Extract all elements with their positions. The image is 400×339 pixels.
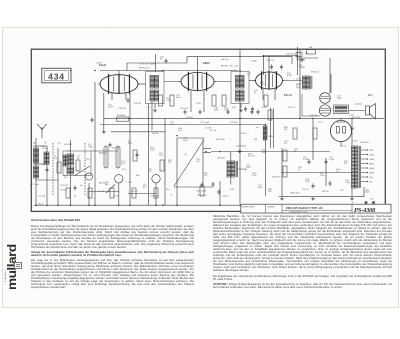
wire mains return	[363, 187, 365, 197]
wire volume drop	[176, 138, 178, 205]
junction J9	[299, 118, 301, 120]
capacitor C60	[329, 181, 332, 187]
svg-text:EBF2: EBF2	[203, 61, 210, 65]
resistor R7	[133, 150, 137, 161]
wire AF line	[177, 137, 204, 139]
svg-text:GO-6215: GO-6215	[112, 148, 121, 150]
capacitor C40	[184, 109, 187, 115]
junction bus b	[70, 204, 72, 206]
svg-text:CHASSIS: CHASSIS	[267, 206, 275, 209]
svg-text:R2 0.3M: R2 0.3M	[60, 185, 68, 187]
capacitor C55b	[212, 182, 215, 188]
resistor R8	[159, 95, 163, 106]
svg-text:R33: R33	[230, 189, 235, 191]
resistor R20	[283, 150, 287, 161]
oscillator coil L5	[67, 154, 74, 165]
wire ground bus left	[34, 204, 240, 206]
mains transformer T3 winding	[352, 146, 361, 188]
wire HT bus	[104, 117, 384, 119]
svg-text:C5 100: C5 100	[60, 190, 67, 192]
svg-text:(1W–2W): (1W–2W)	[352, 117, 360, 119]
wire oscillator link	[91, 150, 118, 152]
resistor R19	[313, 128, 317, 139]
capacitor C41	[199, 109, 202, 115]
resistor R27	[88, 188, 92, 198]
svg-text:C30 C31: C30 C31	[266, 60, 275, 62]
svg-text:(R, S1): (R, S1)	[210, 130, 217, 132]
svg-text:50: 50	[77, 158, 80, 160]
svg-text:(2s): (2s)	[369, 182, 373, 184]
wire smoothing drop	[312, 118, 314, 160]
junction bus l	[118, 204, 120, 206]
wire S1 earth lead	[154, 104, 156, 109]
svg-text:TC: TC	[170, 195, 173, 197]
resistor R31	[200, 186, 204, 196]
svg-text:KORREKTUREN: KORREKTUREN	[242, 207, 256, 209]
wire centre rail lower	[239, 99, 241, 204]
wire AF return	[174, 186, 213, 188]
svg-text:(1Wa): (1Wa)	[369, 155, 374, 157]
resistor R18	[293, 128, 297, 139]
wire rectifier anode	[340, 118, 342, 120]
wire screen bus	[100, 124, 266, 126]
wire stage frame b	[187, 56, 292, 58]
svg-text:(10b): (10b)	[297, 84, 302, 86]
svg-text:60μF: 60μF	[337, 98, 342, 100]
wire stage frame a drop	[126, 63, 128, 71]
svg-text:AF 452: AF 452	[222, 58, 229, 61]
svg-text:50 125: 50 125	[98, 191, 105, 193]
wire V3 anode feed	[268, 56, 270, 72]
loudspeaker BA1	[366, 104, 376, 120]
wire V2 anode to S2	[214, 81, 231, 83]
wire wave switch link	[36, 179, 58, 181]
svg-text:L13a: L13a	[240, 85, 245, 87]
svg-text:100: 100	[196, 161, 200, 163]
svg-text:44 V 474 – A 184: 44 V 474 – A 184	[140, 63, 156, 66]
ground G12	[280, 197, 284, 200]
wire S1 top feed	[155, 54, 157, 72]
svg-text:50: 50	[160, 59, 163, 61]
svg-text:DR50: DR50	[268, 136, 273, 138]
junction bus d	[129, 204, 131, 206]
output transformer T2 primary	[303, 76, 312, 89]
svg-text:B6: B6	[351, 127, 355, 131]
wire switch gang a (dashed)	[52, 143, 54, 196]
wire cathode link b	[128, 193, 156, 195]
svg-text:C21 0.1μF: C21 0.1μF	[200, 122, 210, 124]
wire cathode link a	[89, 191, 119, 193]
svg-text:C33 3110: C33 3110	[286, 54, 295, 56]
svg-text:R34 0.5M: R34 0.5M	[216, 139, 225, 141]
svg-text:10 V: 10 V	[178, 130, 183, 132]
svg-text:(6): (6)	[33, 143, 36, 145]
wire V1 grid drop	[70, 140, 72, 205]
svg-text:1200: 1200	[320, 175, 325, 177]
wire V1 anode drop	[129, 93, 131, 205]
wire S2 to V3 grid	[249, 80, 256, 82]
svg-text:200cm: 200cm	[42, 148, 48, 150]
resistor R9	[170, 95, 174, 106]
svg-text:C70 4700: C70 4700	[296, 60, 306, 62]
svg-text:2 FALZSEITEN 4/17 B.N.: 2 FALZSEITEN 4/17 B.N.	[289, 211, 308, 214]
svg-text:R45 50: R45 50	[322, 191, 329, 193]
svg-text:AF-3017: AF-3017	[218, 157, 227, 160]
IF transformer S2 primary L12	[236, 76, 245, 89]
wire wave rail	[57, 148, 59, 205]
svg-text:(4): (4)	[90, 147, 93, 149]
svg-text:2C/48: 2C/48	[96, 63, 102, 65]
wire output HT loop	[330, 74, 332, 93]
svg-text:BA1: BA1	[368, 94, 373, 97]
svg-text:L5a: L5a	[86, 159, 90, 161]
smoothing can C58 (bottom)	[319, 105, 330, 116]
capacitor C44	[257, 109, 260, 115]
mains voltage selector Wz	[307, 50, 316, 55]
valve V3 ECL11 (output)	[254, 71, 285, 89]
wire centre rail upper	[239, 50, 241, 76]
svg-text:C64 0.1: C64 0.1	[302, 189, 310, 191]
aerial coil L1	[34, 148, 39, 163]
svg-text:C49 0.1: C49 0.1	[222, 196, 230, 198]
mains transformer T3 taps	[361, 149, 368, 182]
junction J15	[219, 151, 221, 153]
svg-text:R19 2M: R19 2M	[310, 115, 317, 117]
wire aerial coil link b	[34, 163, 48, 165]
junction J3	[129, 118, 131, 120]
capacitor C58a	[308, 159, 311, 165]
wire pick-up bus	[211, 151, 330, 153]
aerial	[37, 124, 47, 138]
capacitor C9	[109, 142, 112, 148]
svg-text:GR50 Ukg: GR50 Ukg	[290, 193, 299, 195]
resistor R28	[110, 188, 114, 198]
svg-text:220V: 220V	[369, 150, 374, 152]
wire V1 pin 5	[125, 93, 127, 100]
svg-text:AS-104: AS-104	[43, 163, 51, 166]
wire DR lead a	[270, 108, 272, 148]
resistor R12	[212, 95, 216, 106]
wire S1 to V2 grid	[164, 81, 181, 83]
svg-text:(R, D1): (R, D1)	[248, 156, 255, 158]
wire S1 secondary return	[148, 104, 150, 206]
resistor R15	[268, 110, 272, 120]
junction bus f	[176, 204, 178, 206]
junction J4	[162, 70, 164, 72]
wire pick-up coil bottom	[230, 177, 232, 185]
svg-text:a b: a b	[256, 127, 260, 129]
svg-text:AF-3012: AF-3012	[99, 182, 108, 185]
svg-text:(L2): (L2)	[54, 158, 58, 160]
svg-text:PHILIPS RADIO TYPE 434: PHILIPS RADIO TYPE 434	[286, 206, 323, 210]
svg-text:0.1μF: 0.1μF	[352, 141, 358, 143]
resistor R16	[264, 95, 268, 106]
svg-text:U-8: U-8	[370, 199, 374, 201]
junction J13	[265, 124, 267, 126]
IF transformer S1 screen box	[146, 72, 165, 104]
IF transformer S1 secondary L11	[150, 90, 159, 101]
wire rectifier cathode	[340, 142, 342, 147]
svg-text:R14 50: R14 50	[186, 117, 193, 119]
svg-text:(2e): (2e)	[340, 190, 344, 192]
wire heater line	[281, 172, 352, 174]
svg-text:(W): (W)	[254, 139, 258, 141]
junction bus a	[46, 204, 48, 206]
svg-text:5000: 5000	[365, 192, 370, 194]
junction bus k	[88, 204, 90, 206]
padder trimmer P2	[116, 146, 120, 168]
svg-text:C21a: C21a	[196, 103, 202, 105]
ground G11	[102, 130, 106, 133]
svg-text:(6a): (6a)	[166, 189, 170, 191]
svg-text:o. T. Land: o. T. Land	[30, 184, 39, 186]
IF transformer S2 secondary L13	[236, 90, 245, 101]
junction J12	[176, 135, 178, 137]
wire stage frame a	[127, 62, 187, 64]
title block table	[241, 204, 391, 213]
capacitor C61	[312, 183, 315, 189]
capacitor C4	[127, 98, 130, 104]
svg-text:2500: 2500	[246, 167, 251, 169]
wire V2 pin 3	[190, 91, 192, 113]
svg-text:0.1μF: 0.1μF	[349, 115, 355, 117]
resistor R2	[57, 162, 61, 173]
junction J1	[70, 70, 72, 72]
svg-text:110 P: 110 P	[108, 107, 114, 109]
svg-text:4700 4700: 4700 4700	[197, 195, 207, 197]
wire C59 drop	[325, 158, 327, 186]
smoothing choke DR50	[263, 126, 267, 140]
svg-text:25: 25	[74, 196, 77, 198]
svg-text:0.3M: 0.3M	[224, 110, 229, 112]
svg-text:HF 452 – 80 + 117: HF 452 – 80 + 117	[221, 65, 239, 67]
aerial coil L3	[44, 152, 49, 164]
svg-text:C54 625μF: C54 625μF	[236, 146, 247, 148]
wire switch selector	[202, 138, 204, 185]
svg-text:30: 30	[254, 92, 257, 94]
svg-text:5000: 5000	[258, 187, 263, 189]
svg-text:L8a: L8a	[128, 182, 132, 184]
capacitor C59	[325, 159, 328, 165]
wire DR lead b	[273, 108, 275, 148]
resistor R30	[154, 188, 158, 198]
svg-text:4.5 V: 4.5 V	[318, 122, 323, 124]
component value labels	[30, 46, 374, 206]
junction J5	[205, 151, 207, 153]
mains transformer tap labels	[369, 150, 375, 184]
capacitor C43	[251, 109, 254, 115]
wire output stage loop	[302, 94, 320, 116]
wire choke drop	[265, 125, 267, 197]
svg-text:C18 100: C18 100	[118, 108, 126, 110]
svg-text:50: 50	[298, 169, 301, 171]
wire stage frame b drop	[291, 57, 293, 64]
svg-text:(1We): (1We)	[369, 173, 374, 175]
resistor R13	[222, 95, 226, 106]
ground S1 can	[153, 109, 157, 112]
wire speaker feed	[349, 110, 366, 112]
IF transformer S1 primary L10	[150, 76, 159, 89]
svg-text:0.5M: 0.5M	[287, 75, 292, 77]
wire V3 pin 5	[274, 89, 276, 100]
junction J11	[239, 70, 241, 72]
capacitor C54	[237, 150, 243, 153]
svg-text:+2Ω,10Ω: +2Ω,10Ω	[354, 104, 362, 106]
capacitor C6	[74, 185, 77, 191]
svg-text:Abgleich: Abgleich	[99, 152, 107, 155]
wire node Q	[262, 56, 264, 75]
wire aerial downlead	[35, 138, 37, 205]
svg-text:WO-424: WO-424	[311, 72, 319, 74]
oscillator coil box	[63, 151, 91, 176]
svg-text:0.1μF: 0.1μF	[329, 159, 335, 161]
junction bus i	[35, 204, 37, 206]
svg-text:(1Wb): (1Wb)	[369, 159, 375, 161]
svg-text:5000: 5000	[176, 97, 181, 99]
wire bias drop	[281, 148, 283, 197]
wire mixer drop	[94, 82, 96, 205]
wire range switch lever	[174, 140, 204, 186]
svg-text:1000: 1000	[260, 84, 265, 86]
svg-text:A: A	[45, 142, 47, 145]
svg-text:(10a): (10a)	[297, 79, 302, 81]
svg-text:5000: 5000	[296, 87, 301, 89]
junction J6	[239, 118, 241, 120]
svg-text:(T): (T)	[184, 154, 187, 156]
wire triode T cathode	[88, 183, 90, 205]
capacitor C2	[46, 167, 49, 173]
wire B+ top	[263, 55, 297, 57]
junction bus g	[219, 204, 221, 206]
wire S2 earth lead	[240, 104, 242, 109]
svg-text:1M: 1M	[204, 175, 207, 177]
svg-text:GO-6215: GO-6215	[64, 144, 73, 146]
svg-text:0.1M: 0.1M	[252, 175, 257, 177]
svg-text:AK: AK	[310, 46, 313, 49]
capacitor C28	[299, 59, 305, 62]
svg-text:2M: 2M	[344, 163, 347, 165]
svg-text:R11 1M: R11 1M	[134, 103, 141, 105]
svg-text:C 0.1: C 0.1	[146, 107, 152, 109]
title block text	[242, 206, 324, 214]
junction bus e	[162, 204, 164, 206]
svg-text:30 V: 30 V	[170, 124, 175, 126]
svg-text:C63 5000: C63 5000	[360, 142, 370, 144]
IF transformer S2 screen box	[231, 72, 249, 104]
svg-text:(L8): (L8)	[121, 163, 125, 165]
capacitor C25	[136, 152, 139, 158]
junction J10	[351, 118, 353, 120]
capacitor C55a	[201, 182, 204, 188]
svg-text:70: 70	[247, 75, 250, 77]
svg-text:0.1μF: 0.1μF	[345, 182, 351, 184]
svg-text:C11 0.1: C11 0.1	[131, 191, 139, 193]
wire triode U cathode	[118, 183, 120, 205]
wire band switch rail	[46, 146, 48, 205]
wire V1 pin 3	[111, 93, 113, 100]
wire switch gang b (dashed)	[84, 143, 86, 196]
wire reservoir feed	[329, 58, 331, 94]
capacitor C12	[91, 117, 94, 123]
svg-text:ECL11: ECL11	[284, 93, 292, 97]
wire output rail	[299, 50, 301, 119]
capacitor C31	[280, 64, 283, 70]
svg-text:4μF: 4μF	[105, 184, 109, 186]
wire transformer primary	[351, 118, 353, 146]
wire triode W cathode	[155, 183, 157, 205]
svg-text:C22 650: C22 650	[230, 122, 238, 124]
wire transformer return	[351, 188, 353, 197]
wire V3 pin 3	[262, 89, 264, 100]
schematic border frame	[31, 49, 385, 211]
svg-text:5000: 5000	[214, 110, 219, 112]
wire AVC bus	[100, 70, 238, 72]
wire ground bus right	[279, 196, 364, 198]
wire V3 anode to output transformer	[283, 80, 303, 82]
wire V2 pin 5	[203, 91, 205, 113]
resistor R29	[132, 188, 136, 198]
svg-text:st 5 mA: st 5 mA	[38, 195, 45, 198]
svg-text:18 W: 18 W	[183, 140, 188, 142]
junction bus m	[155, 204, 157, 206]
wire V1 grid cap lead	[118, 71, 120, 75]
svg-text:(S2): (S2)	[232, 107, 236, 109]
svg-text:0.05μF: 0.05μF	[303, 159, 310, 161]
svg-text:(L9): (L9)	[122, 169, 126, 171]
pick-up input transformer L20	[227, 161, 237, 177]
junction bus c	[94, 204, 96, 206]
svg-text:350: 350	[268, 191, 272, 193]
svg-text:150: 150	[148, 171, 152, 173]
RF choke L4	[63, 155, 68, 166]
svg-text:0.2M: 0.2M	[167, 100, 172, 102]
svg-text:C1 8pF: C1 8pF	[250, 61, 257, 63]
ground G14	[350, 197, 354, 200]
resistor R26	[66, 188, 70, 198]
oscillator coil L6	[67, 167, 74, 174]
svg-text:(4Wd): (4Wd)	[369, 168, 375, 170]
wire aerial coil link a	[34, 145, 48, 147]
svg-text:200000Ω: 200000Ω	[117, 115, 126, 117]
capacitor C36	[251, 106, 254, 112]
triode section U (circle)	[115, 175, 123, 183]
junction J7	[263, 55, 265, 57]
junction bus j	[57, 204, 59, 206]
wire top right feed	[296, 57, 318, 59]
wire V1 cathode	[103, 93, 105, 130]
resistor R3	[76, 160, 80, 171]
smoothing can C57 (top)	[320, 93, 331, 104]
ground S2 can	[239, 109, 243, 112]
svg-text:50Ω: 50Ω	[128, 143, 132, 145]
svg-text:434: 434	[48, 71, 65, 81]
aerial coil L2	[34, 166, 39, 178]
wire gram switch lever	[106, 185, 115, 194]
junction J14	[312, 118, 314, 120]
svg-text:40Ω: 40Ω	[262, 152, 266, 154]
resistor R5	[117, 117, 129, 121]
triode section T (circle)	[85, 173, 92, 180]
svg-text:WS-4013: WS-4013	[272, 177, 281, 179]
wire pick-up coil top	[230, 152, 232, 162]
triode section W (circle)	[152, 175, 160, 183]
svg-text:200: 200	[159, 155, 163, 157]
wire tone switch lever	[74, 166, 90, 176]
valve V1 ECH4 (frequency changer)	[98, 74, 140, 94]
valve V4 AZ1 rectifier B6	[330, 120, 351, 141]
svg-text:C29 0.1: C29 0.1	[288, 107, 296, 109]
svg-text:30: 30	[143, 187, 146, 189]
